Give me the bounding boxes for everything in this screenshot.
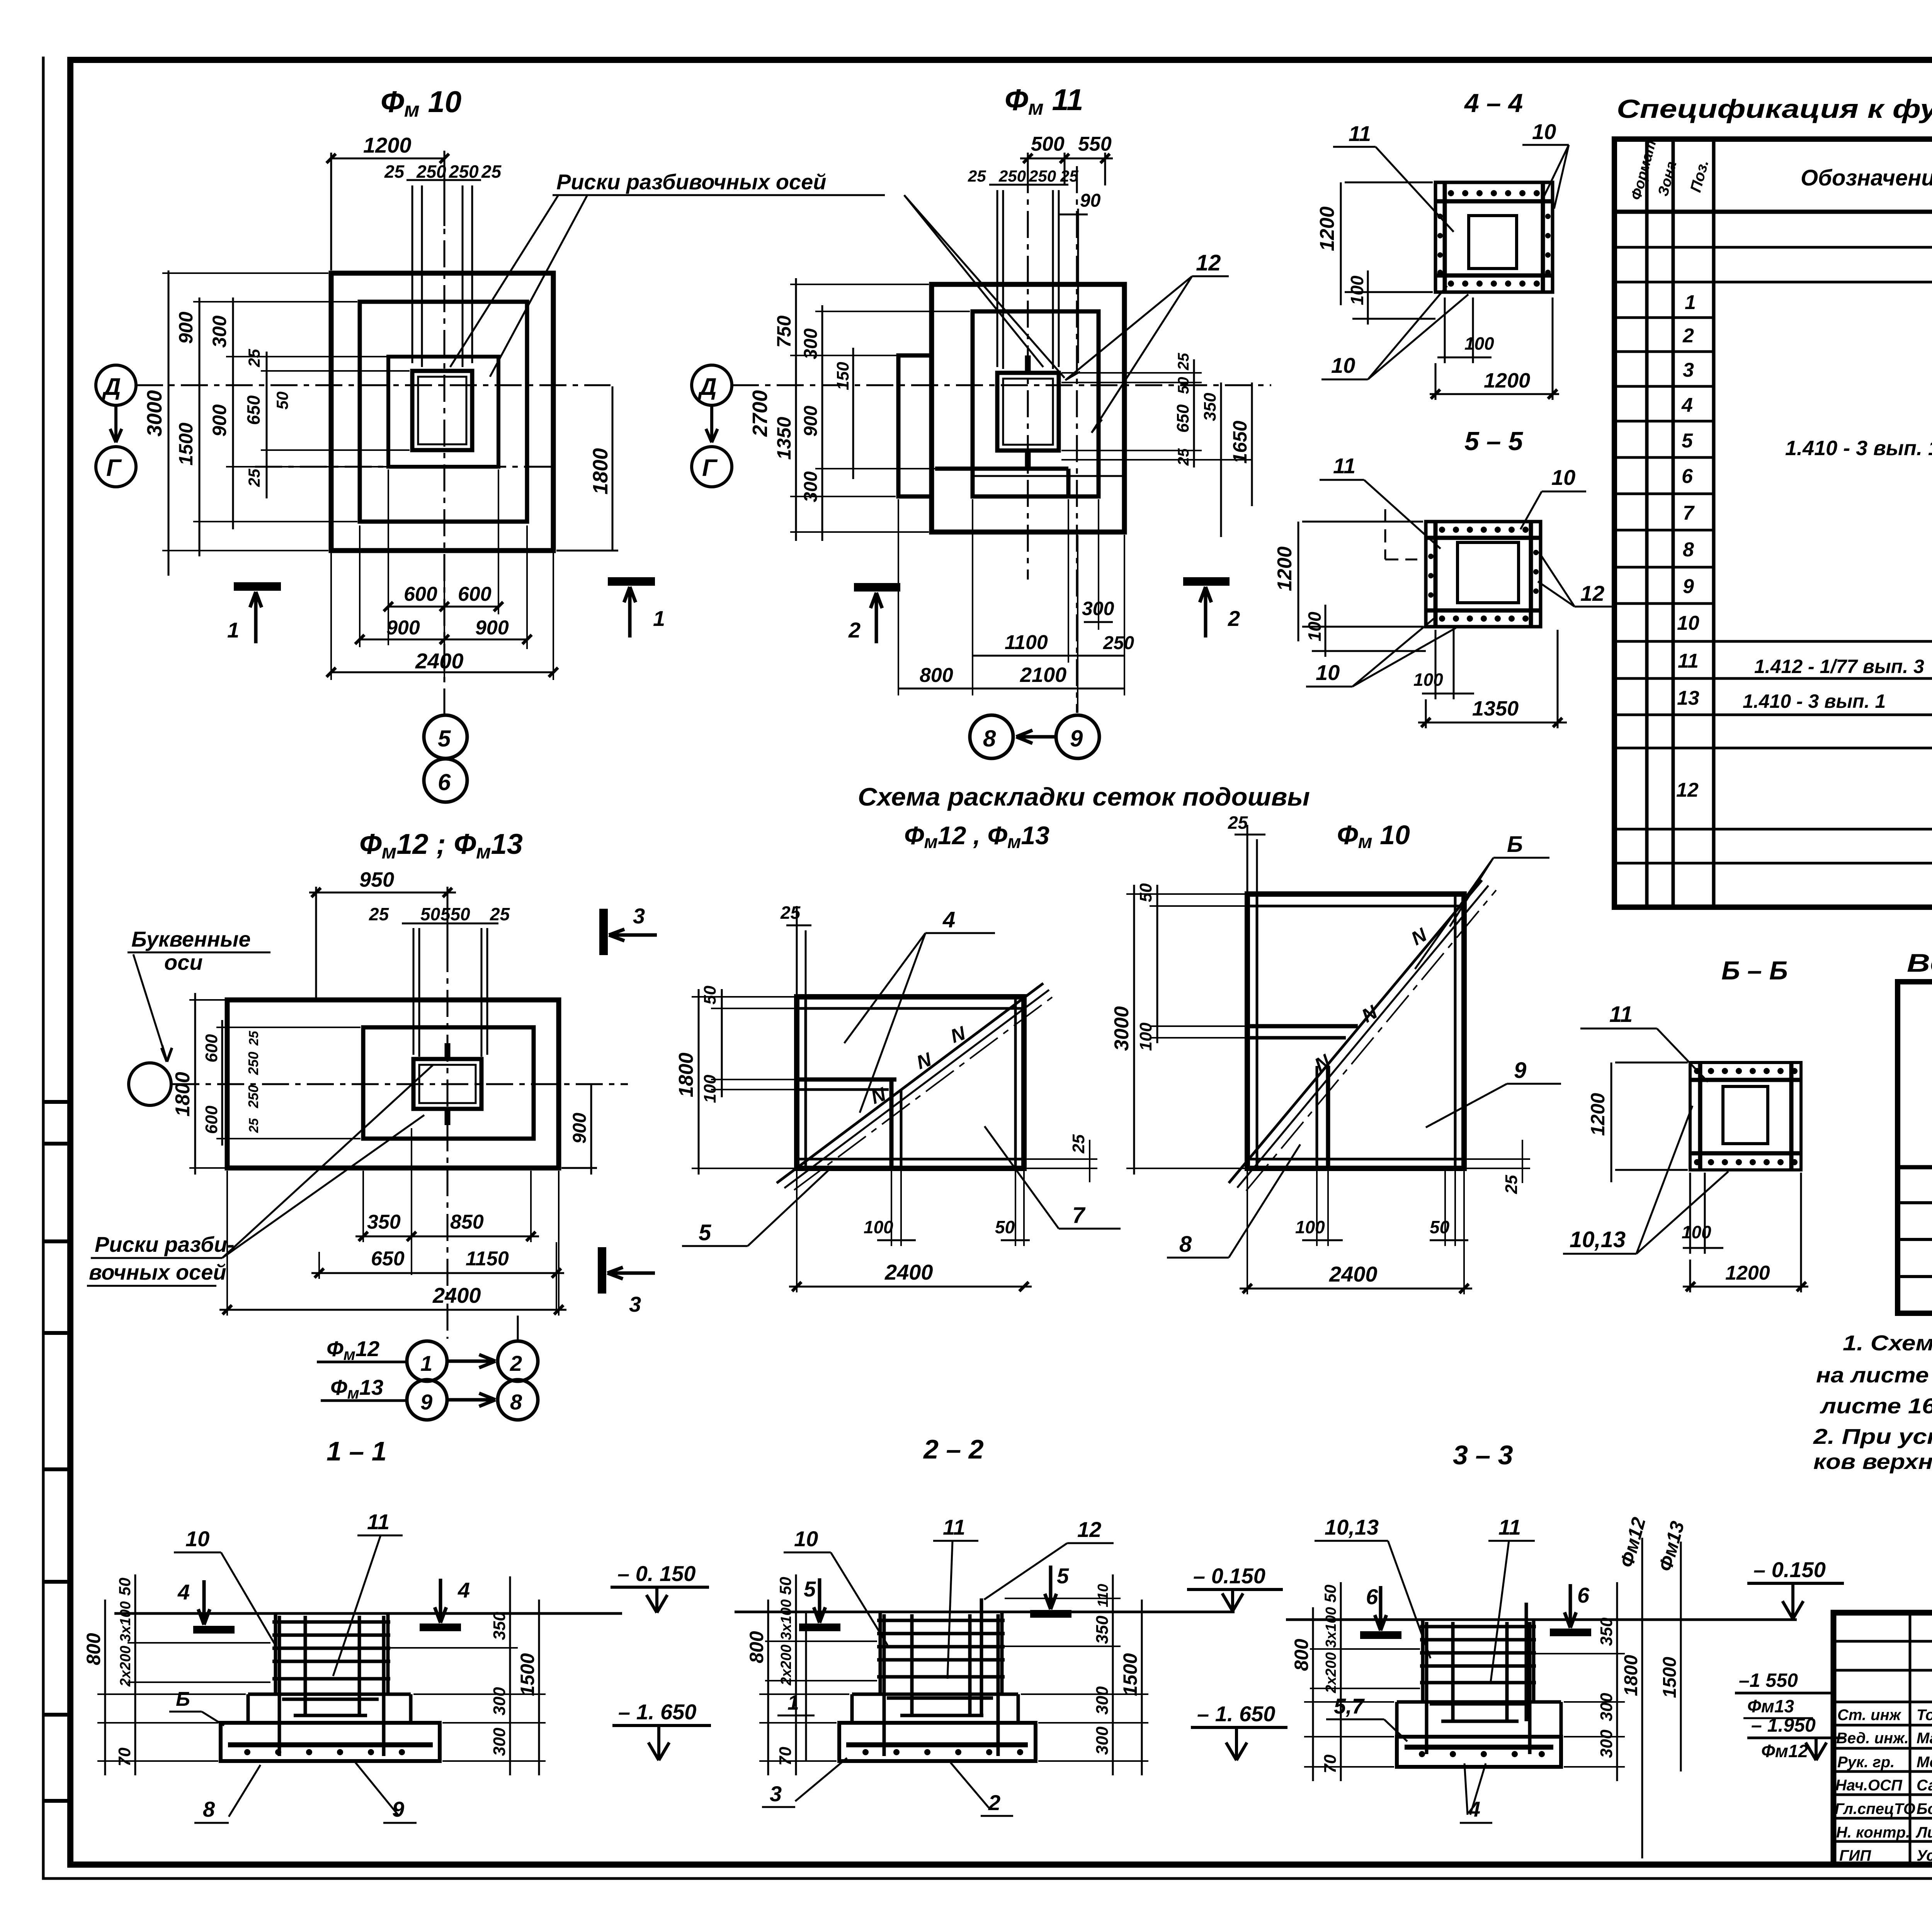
- svg-text:2 – 2: 2 – 2: [923, 1434, 984, 1464]
- svg-text:на листе 10. Схема нагрузо: на листе 10. Схема нагрузок для Фм12 и Ф…: [1816, 1363, 1932, 1387]
- svg-text:Гл.спецТО: Гл.спецТО: [1835, 1800, 1915, 1817]
- svg-text:3000: 3000: [143, 390, 166, 437]
- dim 25 250 250 25: [406, 180, 481, 367]
- plan Фм12 Фм13: [87, 828, 657, 1466]
- svg-text:50: 50: [701, 986, 719, 1005]
- rebar dots top: [1439, 527, 1529, 533]
- svg-text:1350: 1350: [773, 417, 795, 460]
- svg-text:1.412 - 1/77 вып. 3: 1.412 - 1/77 вып. 3: [1754, 656, 1924, 677]
- svg-text:900: 900: [570, 1113, 590, 1144]
- bottom dims: [227, 1128, 559, 1316]
- svg-text:11: 11: [943, 1515, 965, 1539]
- left dims: [692, 997, 794, 1168]
- svg-text:350: 350: [1093, 1615, 1112, 1644]
- svg-text:250: 250: [416, 161, 446, 182]
- dim 100 bottom: [1422, 630, 1474, 699]
- svg-text:900: 900: [475, 617, 509, 639]
- axis Г dash-dot horizontal: [255, 466, 553, 468]
- svg-text:Б: Б: [176, 1688, 190, 1710]
- fold strip left edge: [45, 1102, 69, 1801]
- node circle 9: [1056, 715, 1099, 758]
- bolt axis ticks: [1025, 355, 1031, 469]
- bolt ticks: [445, 1043, 451, 1125]
- section 4-4: [1316, 88, 1569, 400]
- step: [248, 1694, 411, 1723]
- svg-text:50: 50: [1430, 1217, 1450, 1237]
- svg-text:3: 3: [1683, 359, 1694, 381]
- mesh outline: [1247, 894, 1464, 1168]
- svg-text:12: 12: [1077, 1517, 1101, 1542]
- svg-text:11: 11: [1678, 650, 1699, 672]
- left step protrusion: [898, 355, 932, 496]
- svg-text:50: 50: [995, 1217, 1015, 1237]
- arrow 9 to 8: [1016, 730, 1055, 743]
- svg-text:600: 600: [202, 1105, 221, 1134]
- step 2 outline: [363, 1027, 534, 1139]
- svg-text:Усташевских: Усташевских: [1917, 1847, 1932, 1864]
- svg-text:100: 100: [1464, 333, 1494, 354]
- right dim chain: [390, 1648, 546, 1761]
- svg-text:Риски разбивочных осей: Риски разбивочных осей: [556, 170, 826, 194]
- svg-text:70: 70: [1321, 1754, 1340, 1773]
- dim 1350 bottom: [1418, 630, 1567, 728]
- svg-text:11: 11: [1333, 454, 1355, 478]
- svg-text:300: 300: [1082, 598, 1114, 619]
- svg-text:– 0.150: – 0.150: [1753, 1557, 1826, 1582]
- axis circle blank: [129, 1063, 171, 1105]
- svg-text:ков верхние поперечные стер: ков верхние поперечные стержни сеток сре…: [1813, 1449, 1932, 1474]
- svg-text:– 0. 150: – 0. 150: [617, 1561, 696, 1586]
- svg-text:Фм13: Фм13: [1747, 1696, 1794, 1716]
- dim 100 bottom: [1683, 1173, 1723, 1254]
- svg-text:10: 10: [1331, 353, 1355, 377]
- svg-text:10: 10: [185, 1527, 209, 1551]
- axis circle Д: [96, 365, 136, 405]
- cross-section 1-1: [83, 1510, 711, 1823]
- right dim 25: [1027, 1140, 1097, 1182]
- svg-text:3х100: 3х100: [1323, 1607, 1339, 1648]
- svg-text:300: 300: [1093, 1686, 1112, 1715]
- rebar dots sides: [1437, 214, 1551, 275]
- svg-text:1: 1: [1685, 291, 1696, 314]
- svg-text:Н. контр.: Н. контр.: [1836, 1824, 1910, 1841]
- svg-text:110: 110: [1095, 1584, 1111, 1607]
- svg-text:2400: 2400: [884, 1260, 933, 1284]
- column rebar horizontals: [877, 1620, 1005, 1715]
- svg-text:25: 25: [490, 904, 510, 924]
- signature table rows: [1833, 1641, 1932, 1841]
- svg-text:Ст. инж: Ст. инж: [1837, 1707, 1902, 1724]
- dim 100 left: [1352, 270, 1435, 325]
- svg-text:25: 25: [1060, 167, 1078, 185]
- cross-section 2-2: [735, 1515, 1287, 1816]
- svg-text:250: 250: [998, 167, 1026, 185]
- dim 1800 right: [556, 386, 618, 551]
- column lines: [1647, 139, 1932, 907]
- left dims: [189, 1000, 361, 1168]
- svg-text:50: 50: [273, 391, 291, 410]
- svg-text:3: 3: [629, 1292, 641, 1316]
- horizontal mesh bars: [1435, 201, 1553, 275]
- bottom dims: [898, 499, 1124, 713]
- dim 25 top: [1235, 825, 1265, 892]
- svg-text:25: 25: [245, 349, 263, 367]
- svg-text:100: 100: [1347, 275, 1367, 305]
- cross-section 3-3: [1286, 1515, 1845, 1858]
- slab rebar: [1405, 1745, 1553, 1750]
- svg-text:2: 2: [1228, 606, 1240, 631]
- svg-text:10,13: 10,13: [1325, 1515, 1379, 1539]
- rebar dots bottom: [1439, 615, 1529, 622]
- anchor plate double square: [997, 373, 1059, 450]
- svg-text:300: 300: [209, 315, 230, 348]
- spec table data rows: [1676, 291, 1932, 801]
- column sides: [880, 1612, 1002, 1694]
- svg-text:– 1.950: – 1.950: [1751, 1714, 1816, 1736]
- dim 1200 left: [1341, 182, 1433, 305]
- partial row lines: [1614, 318, 1714, 603]
- svg-text:600: 600: [202, 1034, 221, 1062]
- datum lines Фм12 Фм13: [1642, 1538, 1681, 1858]
- right dim chain of anchor square: [1061, 373, 1252, 460]
- svg-text:650: 650: [1173, 404, 1192, 433]
- step: [1397, 1702, 1561, 1737]
- mesh outline: [797, 997, 1024, 1168]
- base slab: [221, 1723, 440, 1761]
- svg-text:100: 100: [1304, 612, 1325, 641]
- svg-text:2400: 2400: [1329, 1262, 1378, 1286]
- svg-text:650: 650: [243, 395, 264, 425]
- svg-text:Нач.ОСП: Нач.ОСП: [1835, 1777, 1903, 1794]
- svg-text:25: 25: [1228, 813, 1248, 833]
- section mark 1 right: [608, 577, 655, 586]
- steel consumption table: [1898, 949, 1932, 1313]
- node circle 8: [970, 715, 1013, 758]
- svg-text:70: 70: [115, 1748, 134, 1766]
- axis circle Г: [96, 447, 136, 487]
- svg-text:550: 550: [440, 904, 470, 924]
- svg-text:300: 300: [490, 1687, 509, 1715]
- svg-text:1200: 1200: [363, 133, 412, 157]
- svg-text:50: 50: [1175, 377, 1192, 394]
- svg-text:800: 800: [746, 1631, 767, 1663]
- svg-text:оси: оси: [164, 950, 203, 974]
- svg-text:600: 600: [458, 583, 492, 605]
- svg-text:3х100: 3х100: [778, 1599, 794, 1640]
- svg-text:1150: 1150: [466, 1248, 509, 1270]
- plan Фм10: [96, 85, 1065, 802]
- svg-text:1800: 1800: [675, 1052, 697, 1097]
- svg-text:3х100: 3х100: [117, 1601, 134, 1642]
- svg-text:13: 13: [1677, 687, 1699, 709]
- column rebar verticals: [1427, 1622, 1530, 1754]
- column inner square: [1458, 542, 1519, 603]
- svg-text:– 1. 650: – 1. 650: [1197, 1702, 1275, 1726]
- ground line: [1286, 1618, 1797, 1621]
- section mark 2 left: [854, 583, 900, 592]
- svg-text:300: 300: [490, 1727, 509, 1756]
- diagonal with N marks: [1229, 880, 1482, 1183]
- left dim chain: [790, 284, 970, 532]
- svg-text:350: 350: [1597, 1617, 1616, 1646]
- vertical axis dash-dot: [1028, 166, 1077, 713]
- svg-text:Рук. гр.: Рук. гр.: [1837, 1754, 1895, 1771]
- svg-text:250: 250: [449, 161, 479, 182]
- svg-text:50: 50: [420, 904, 440, 924]
- svg-text:1800: 1800: [172, 1072, 194, 1117]
- bottom dims: [331, 469, 553, 680]
- left dims: [1126, 894, 1245, 1168]
- svg-text:5: 5: [1057, 1564, 1069, 1588]
- svg-text:1350: 1350: [1472, 697, 1519, 720]
- dim 90: [1059, 209, 1088, 363]
- base slab: [1397, 1737, 1561, 1767]
- svg-text:Ведомость расхода стали на: Ведомость расхода стали на элемент , кг: [1907, 949, 1932, 977]
- svg-text:10: 10: [1677, 612, 1699, 634]
- anchor bolt above ground: [980, 1598, 983, 1715]
- svg-text:10: 10: [794, 1527, 818, 1551]
- svg-text:Б: Б: [1507, 832, 1523, 857]
- column rebar verticals: [884, 1614, 998, 1756]
- svg-text:листе 16, для Фм10 – на лист: листе 16, для Фм10 – на листе 10.: [1820, 1394, 1932, 1418]
- svg-text:50: 50: [776, 1577, 794, 1595]
- svg-text:5,7: 5,7: [1334, 1694, 1365, 1718]
- svg-text:1200: 1200: [1484, 369, 1530, 392]
- section mark 3 top right: [599, 909, 608, 955]
- svg-text:1500: 1500: [175, 423, 197, 466]
- svg-text:3: 3: [770, 1782, 782, 1806]
- dim 1200 left: [1298, 522, 1423, 641]
- signature table columns: [1910, 1613, 1932, 1865]
- svg-text:Д: Д: [102, 374, 121, 400]
- svg-text:500: 500: [1031, 133, 1065, 155]
- svg-text:Толмачева: Толмачева: [1917, 1707, 1932, 1724]
- svg-text:1.410 - 3 вып. 1: 1.410 - 3 вып. 1: [1743, 690, 1886, 712]
- svg-text:100: 100: [1136, 1022, 1155, 1051]
- slab rebar: [228, 1742, 433, 1748]
- svg-text:5: 5: [438, 726, 451, 751]
- svg-text:1.410 - 3 вып. 1: 1.410 - 3 вып. 1: [1785, 437, 1932, 460]
- svg-text:1200: 1200: [1316, 206, 1338, 251]
- svg-text:5: 5: [699, 1220, 711, 1245]
- svg-text:300: 300: [801, 471, 821, 502]
- axis Д dash-dot horizontal: [136, 384, 611, 386]
- schema titles: [858, 782, 1310, 852]
- anchor plate double square: [413, 1059, 481, 1109]
- svg-text:вочных осей: вочных осей: [89, 1260, 226, 1284]
- right dim 900: [561, 1084, 597, 1175]
- svg-text:1200: 1200: [1274, 546, 1296, 591]
- svg-text:2: 2: [848, 618, 861, 642]
- svg-text:Саакьянц: Саакьянц: [1917, 1777, 1932, 1794]
- svg-text:Буквенные: Буквенные: [131, 927, 251, 951]
- svg-text:10: 10: [1316, 660, 1340, 685]
- mesh internal bars: [1247, 1024, 1358, 1028]
- svg-text:850: 850: [450, 1211, 484, 1233]
- slab rebar: [846, 1742, 1028, 1748]
- svg-text:2: 2: [510, 1351, 522, 1375]
- svg-text:– 1. 650: – 1. 650: [618, 1700, 696, 1724]
- svg-text:1: 1: [227, 618, 239, 642]
- svg-text:4: 4: [457, 1578, 470, 1602]
- outer slab outline: [932, 284, 1124, 532]
- axis circle Г: [692, 447, 732, 487]
- svg-text:3 – 3: 3 – 3: [1453, 1440, 1513, 1470]
- svg-text:–1 550: –1 550: [1739, 1669, 1798, 1691]
- svg-text:6: 6: [1682, 465, 1693, 488]
- dim 1200 bottom: [1683, 1173, 1808, 1292]
- svg-text:Макарова: Макарова: [1917, 1730, 1932, 1747]
- svg-text:5: 5: [804, 1577, 816, 1601]
- anchor bolt above ground: [1525, 1603, 1528, 1721]
- svg-text:1500: 1500: [517, 1653, 538, 1696]
- svg-text:4: 4: [177, 1580, 190, 1604]
- svg-text:25: 25: [247, 1118, 261, 1133]
- node circle 5: [424, 715, 467, 758]
- svg-text:4: 4: [1681, 394, 1693, 416]
- svg-text:25: 25: [1069, 1134, 1088, 1154]
- svg-text:Г: Г: [702, 455, 718, 481]
- signature rows text: [1835, 1707, 1932, 1864]
- svg-text:350: 350: [1201, 393, 1219, 421]
- svg-text:950: 950: [359, 868, 394, 891]
- column rebar horizontals: [272, 1622, 390, 1715]
- svg-text:2700: 2700: [748, 390, 772, 437]
- formwork square: [1435, 182, 1553, 292]
- svg-text:250: 250: [245, 1052, 261, 1075]
- step 2 outline: [360, 302, 527, 522]
- svg-text:1650: 1650: [1229, 421, 1251, 464]
- svg-text:Д: Д: [697, 374, 717, 400]
- column sides: [276, 1613, 388, 1694]
- column inner square: [1723, 1086, 1768, 1144]
- dim 950 top: [309, 887, 456, 1001]
- svg-text:150: 150: [833, 362, 852, 390]
- svg-text:Б – Б: Б – Б: [1721, 956, 1788, 985]
- svg-text:1800: 1800: [1621, 1655, 1641, 1696]
- svg-text:7: 7: [1072, 1203, 1086, 1228]
- svg-text:9: 9: [1683, 575, 1694, 598]
- dim 100 left: [1312, 605, 1426, 657]
- svg-text:10,13: 10,13: [1570, 1227, 1626, 1252]
- svg-text:Моргунов: Моргунов: [1917, 1754, 1932, 1771]
- horizontal axis dash-dot: [172, 1083, 628, 1085]
- svg-text:8: 8: [203, 1797, 215, 1821]
- svg-text:300: 300: [1597, 1729, 1616, 1758]
- vertical axis dash-dot: [447, 900, 518, 1341]
- svg-text:1: 1: [653, 606, 665, 631]
- svg-text:11: 11: [1498, 1515, 1521, 1539]
- vertical axis dash-dot: [444, 151, 446, 719]
- svg-text:6: 6: [438, 769, 451, 795]
- svg-text:600: 600: [404, 583, 437, 605]
- svg-text:100: 100: [701, 1074, 719, 1103]
- dim 1200 top: [331, 153, 444, 270]
- svg-text:25: 25: [245, 469, 263, 487]
- column rebar verticals: [279, 1616, 384, 1756]
- svg-text:Риски разби-: Риски разби-: [95, 1232, 235, 1256]
- svg-text:Фм 11: Фм 11: [1005, 83, 1083, 119]
- svg-text:10: 10: [1551, 465, 1575, 490]
- dim 25 50 550 25: [402, 923, 498, 1057]
- vertical mesh bars: [1435, 522, 1531, 627]
- svg-text:250: 250: [245, 1085, 261, 1108]
- svg-text:2400: 2400: [432, 1283, 481, 1307]
- svg-text:250: 250: [1103, 633, 1134, 653]
- svg-text:9: 9: [1514, 1058, 1526, 1083]
- rebar dots: [1694, 1068, 1798, 1074]
- section mark 1 left: [234, 582, 281, 591]
- svg-text:50: 50: [1136, 883, 1155, 902]
- svg-text:ГИП: ГИП: [1839, 1847, 1871, 1864]
- svg-text:1100: 1100: [1005, 631, 1048, 654]
- svg-text:2100: 2100: [1020, 663, 1066, 687]
- svg-text:100: 100: [1295, 1217, 1325, 1237]
- svg-text:25: 25: [384, 161, 405, 182]
- svg-text:5 – 5: 5 – 5: [1464, 427, 1523, 456]
- svg-text:1200: 1200: [1725, 1262, 1770, 1284]
- svg-text:50: 50: [116, 1578, 134, 1596]
- svg-text:8: 8: [1683, 539, 1694, 561]
- right dim chain: [1536, 1654, 1625, 1767]
- ground line: [735, 1611, 1235, 1613]
- svg-text:900: 900: [209, 404, 230, 437]
- svg-text:2: 2: [1682, 325, 1694, 347]
- node circle 6: [424, 759, 467, 802]
- svg-text:25: 25: [1175, 448, 1192, 466]
- base slab: [839, 1723, 1036, 1761]
- svg-text:Фм 10: Фм 10: [381, 85, 461, 121]
- svg-text:2400: 2400: [415, 649, 464, 673]
- svg-text:1200: 1200: [1587, 1093, 1609, 1136]
- arrow Д to Г: [706, 406, 718, 442]
- mesh internal bars: [797, 1078, 896, 1082]
- section mark 3 bottom right: [598, 1247, 606, 1294]
- step: [852, 1694, 1018, 1723]
- svg-text:Г: Г: [106, 455, 122, 481]
- svg-text:800: 800: [1291, 1639, 1312, 1671]
- svg-text:2. При установке в опалубку: 2. При установке в опалубку вертикальных…: [1813, 1424, 1932, 1448]
- wall datum line: [805, 1612, 807, 1761]
- svg-text:350: 350: [367, 1211, 401, 1233]
- right dim 25: [1467, 1140, 1530, 1183]
- horizontal mesh bars: [1426, 538, 1541, 610]
- mesh layout Фм10: [1111, 813, 1561, 1470]
- svg-text:2х200: 2х200: [117, 1646, 134, 1687]
- svg-text:550: 550: [1078, 133, 1112, 155]
- svg-text:11: 11: [1349, 121, 1371, 146]
- svg-text:250: 250: [1029, 167, 1056, 185]
- svg-text:Обозначение: Обозначение: [1801, 165, 1932, 190]
- svg-text:50: 50: [1321, 1584, 1339, 1603]
- svg-text:10: 10: [1532, 119, 1556, 144]
- svg-text:2х200: 2х200: [778, 1644, 794, 1686]
- svg-text:900: 900: [175, 311, 197, 344]
- svg-text:25: 25: [1502, 1175, 1521, 1194]
- dim 1200 bottom: [1430, 297, 1559, 400]
- svg-text:2: 2: [988, 1790, 1000, 1815]
- svg-text:11: 11: [367, 1510, 389, 1534]
- svg-text:1800: 1800: [589, 448, 612, 495]
- svg-text:300: 300: [1093, 1726, 1112, 1755]
- left dim chain: [759, 1641, 877, 1761]
- rebar dots top: [1448, 190, 1540, 196]
- anchor plate double square: [412, 371, 472, 450]
- diagonal with N marks: [777, 983, 1043, 1183]
- column rebar horizontals: [1420, 1627, 1536, 1721]
- svg-text:25: 25: [369, 904, 389, 924]
- svg-text:Фм12: Фм12: [1761, 1741, 1808, 1761]
